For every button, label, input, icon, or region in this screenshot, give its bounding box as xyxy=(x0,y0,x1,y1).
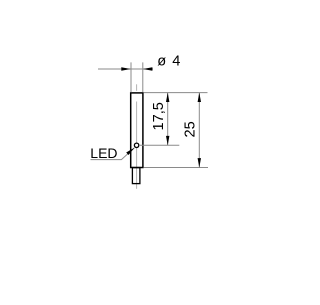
svg-text:25: 25 xyxy=(183,121,199,137)
arrowhead 17,5 top xyxy=(166,93,169,103)
dimension line 17,5 xyxy=(167,93,169,146)
extension line left (diameter) xyxy=(130,62,132,92)
svg-text:ø: ø xyxy=(157,53,166,69)
arrowhead diameter right xyxy=(143,67,153,70)
arrowhead 17,5 bottom xyxy=(166,136,169,146)
extension line bottom right xyxy=(144,167,208,169)
arrowhead 25 bottom xyxy=(198,158,201,168)
extension line LED level xyxy=(139,144,179,146)
LED leader arrowhead xyxy=(126,148,134,155)
extension line right (diameter) xyxy=(142,62,144,92)
center line (dash-dot axis of sensor) xyxy=(136,84,138,189)
dimension line diameter xyxy=(98,68,153,70)
svg-text:LED: LED xyxy=(90,145,117,161)
connector (bottom stub) xyxy=(132,168,140,184)
arrowhead diameter left xyxy=(121,67,131,70)
arrowhead 25 top xyxy=(198,93,201,103)
sensor body outline xyxy=(131,93,143,168)
svg-text:4: 4 xyxy=(172,53,180,69)
extension line top right xyxy=(144,92,208,94)
dimension line 25 xyxy=(198,93,200,168)
LED indicator circle xyxy=(134,143,138,147)
LED leader line xyxy=(91,148,135,160)
svg-text:17,5: 17,5 xyxy=(151,102,167,130)
